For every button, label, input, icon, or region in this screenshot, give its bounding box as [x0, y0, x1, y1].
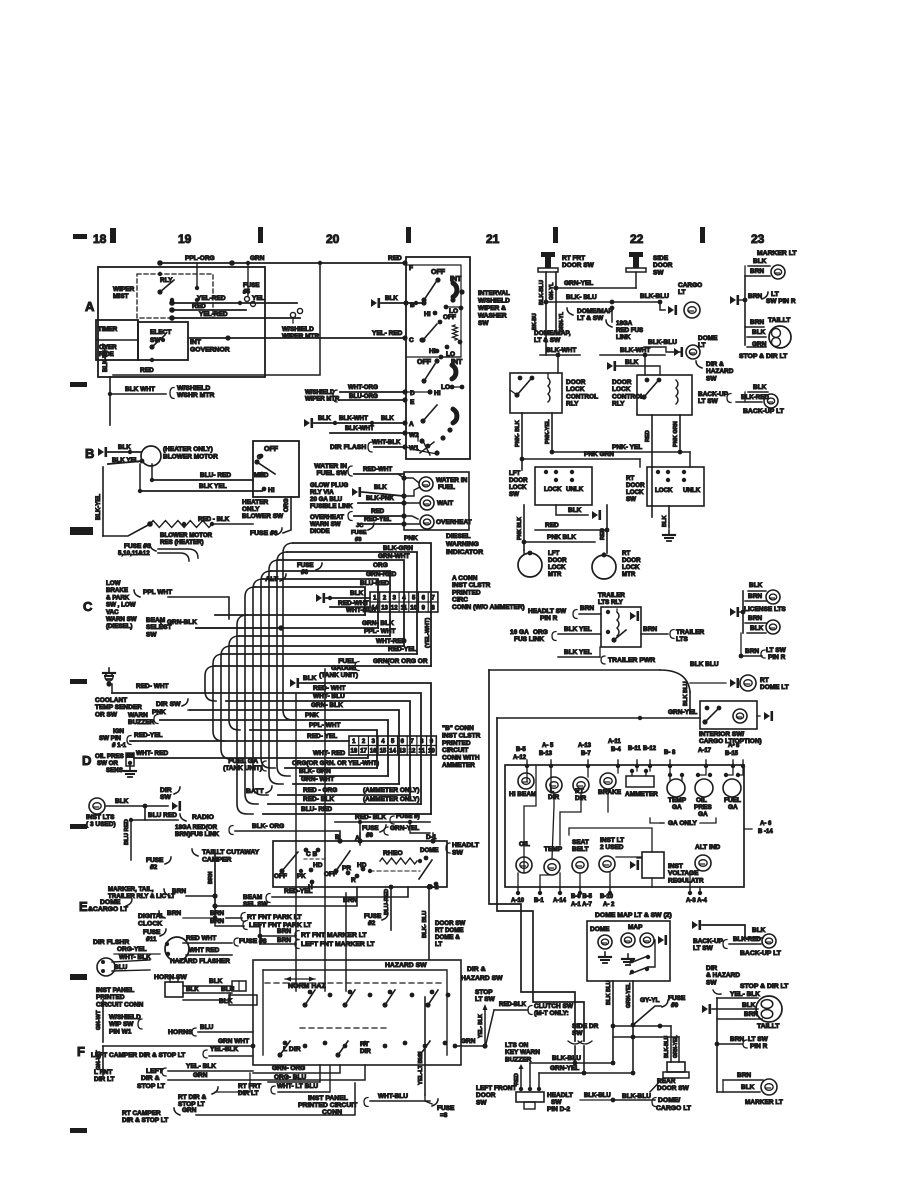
- svg-text:DOOR: DOOR: [626, 482, 645, 489]
- wiper sw W2 wire: [406, 433, 418, 441]
- wire BLK-BLU dome cargo: [580, 1093, 692, 1112]
- svg-text:LOCK: LOCK: [566, 386, 585, 393]
- svg-text:4: 4: [381, 739, 385, 745]
- svg-text:BLK: BLK: [752, 927, 766, 934]
- svg-text:ORG: ORG: [284, 498, 290, 512]
- svg-text:LT SW: LT SW: [766, 647, 787, 654]
- svg-text:MARKER LT: MARKER LT: [757, 250, 797, 257]
- svg-text:GRN-YEL: GRN-YEL: [564, 280, 593, 287]
- svg-text:CONTROL: CONTROL: [566, 393, 598, 400]
- ign sw pin: [99, 728, 163, 749]
- svg-text:RT DIR &: RT DIR &: [178, 1094, 206, 1101]
- headlamp sw rheostat: [368, 847, 439, 891]
- wshield wip sw pin: [109, 1014, 142, 1035]
- svg-text:18GA: 18GA: [616, 320, 633, 327]
- svg-text:FUEL: FUEL: [438, 484, 455, 491]
- svg-text:BLK-BLU: BLK-BLU: [584, 1093, 611, 1099]
- svg-text:WHT-BLU: WHT-BLU: [346, 607, 376, 614]
- vertical BLU RED inst: [124, 818, 145, 860]
- svg-text:GRN: GRN: [250, 255, 265, 262]
- hazard sw dashed mid: [300, 1027, 390, 1029]
- svg-text:& HAZARD: & HAZARD: [706, 972, 740, 979]
- wire BLU-RED through connector A: [255, 580, 390, 615]
- svg-text:ONLY: ONLY: [242, 506, 260, 513]
- dir sw hook: [156, 699, 190, 710]
- svg-text:LT: LT: [771, 291, 780, 298]
- svg-text:WHT-BLK: WHT-BLK: [372, 439, 401, 446]
- svg-text:DOOR: DOOR: [653, 262, 673, 269]
- svg-text:LT: LT: [435, 941, 442, 948]
- svg-text:GRN-YEL: GRN-YEL: [390, 825, 419, 832]
- svg-text:WSHR MTR: WSHR MTR: [177, 392, 214, 399]
- rt door lock mtr: [592, 550, 641, 579]
- blower motor (heater only): [141, 446, 218, 466]
- harness wire PPL-WHT bundle: [229, 636, 240, 730]
- headlamp switch box: [273, 841, 447, 887]
- int governor box: [98, 267, 265, 377]
- svg-text:WARN SW: WARN SW: [106, 616, 137, 623]
- svg-text:FUSE: FUSE: [364, 913, 382, 920]
- svg-text:INTERVAL: INTERVAL: [478, 290, 510, 297]
- svg-text:RED: RED: [645, 430, 651, 442]
- svg-text:BLK: BLK: [753, 384, 767, 391]
- svg-text:BRN: BRN: [580, 605, 594, 612]
- svg-text:C: C: [409, 337, 414, 344]
- svg-text:#2: #2: [150, 864, 158, 871]
- wire RED-WHT through connector B: [112, 685, 421, 804]
- svg-text:RED-YEL: RED-YEL: [134, 732, 163, 739]
- inst panel printed circuit conn label: [96, 987, 144, 1008]
- vertical BLK BLU headlamp: [422, 885, 431, 959]
- svg-text:DOME/: DOME/: [658, 1097, 680, 1104]
- svg-text:BLU- RED: BLU- RED: [200, 472, 231, 479]
- wire PPL-ORG / GRN to wiper switch pin F: [157, 255, 413, 272]
- svg-text:RT: RT: [626, 475, 634, 482]
- svg-text:WASHER: WASHER: [478, 313, 507, 320]
- svg-text:DIR &: DIR &: [706, 361, 724, 368]
- wire BLU-RED to heater sw: [150, 464, 253, 482]
- svg-text:FUSE: FUSE: [351, 530, 367, 536]
- svg-text:16 GA: 16 GA: [510, 629, 529, 636]
- svg-text:WHT-BLU: WHT-BLU: [378, 1093, 408, 1100]
- svg-text:HEADLT SW: HEADLT SW: [528, 608, 567, 615]
- verticals BLK-BLU GRN-YEL bottom: [606, 980, 633, 1071]
- label B conn inst clstr: [442, 725, 481, 769]
- dir sw lower: [160, 787, 180, 801]
- lft door lock mtr: [518, 550, 567, 578]
- svg-text:D: D: [82, 753, 91, 768]
- svg-text:SW: SW: [478, 320, 489, 327]
- backup lt sw right: [698, 384, 785, 415]
- row letter B: [85, 446, 94, 461]
- svg-text:15: 15: [380, 749, 387, 755]
- side dr sw label: [568, 1023, 599, 1044]
- horn fuse blocks: [229, 981, 257, 1005]
- wire WHT-BLU through connector B: [226, 693, 410, 795]
- wiper sw section 1 OFF/INT: [421, 269, 464, 303]
- svg-text:#11: #11: [146, 936, 157, 943]
- svg-text:BUZZER: BUZZER: [128, 719, 155, 726]
- svg-text:RED- WHT: RED- WHT: [136, 683, 169, 690]
- svg-text:SW: SW: [653, 269, 664, 276]
- svg-text:3: 3: [393, 596, 397, 602]
- svg-text:RED-BLK: RED-BLK: [499, 1002, 527, 1008]
- label RT DIR: [360, 1041, 371, 1055]
- svg-text:E: E: [410, 399, 415, 406]
- inst voltage regulator: [630, 852, 704, 884]
- svg-text:BRAKE: BRAKE: [598, 789, 622, 796]
- svg-text:DOME/MAP: DOME/MAP: [577, 308, 613, 315]
- wire BLK-GRN through connector A: [287, 545, 417, 654]
- svg-text:RT: RT: [622, 550, 630, 557]
- connector A grid: [370, 592, 438, 612]
- wire grn-yel staircase to side door: [497, 718, 584, 1041]
- back-up lt sw bottom: [692, 920, 782, 957]
- wire GRN-BLK row C: [196, 620, 394, 631]
- left dir stop lt: [137, 1063, 365, 1090]
- svg-text:7: 7: [431, 596, 435, 602]
- svg-text:RED-YEL: RED-YEL: [284, 888, 313, 895]
- wire BLK YEL trailer pwr: [558, 647, 655, 664]
- svg-text:FUSE #S: FUSE #S: [124, 543, 152, 550]
- svg-text:LOCK: LOCK: [544, 486, 562, 493]
- wire RED-WHT into connector A: [330, 600, 370, 607]
- vertical YEL-LT BLU: [418, 997, 425, 1095]
- svg-text:BRN: BRN: [748, 593, 762, 600]
- door sw rt dome labels right edge: [435, 920, 465, 948]
- svg-text:A CONN: A CONN: [452, 575, 478, 582]
- vertical GN-WT upper: [96, 1000, 103, 1042]
- wire GRN(OR ORG OR) row C: [215, 618, 431, 666]
- svg-text:OFF: OFF: [417, 359, 432, 366]
- svg-text:HI: HI: [434, 390, 441, 397]
- svg-text:DIR &: DIR &: [467, 966, 486, 973]
- svg-text:PRINTED: PRINTED: [96, 994, 125, 1001]
- svg-text:SW PIN: SW PIN: [99, 735, 122, 742]
- brn rt fnt marker: [258, 926, 368, 944]
- svg-text:INST CLSTR: INST CLSTR: [452, 582, 491, 589]
- wire rt dome lt / dome & cargo staircase: [489, 670, 575, 1041]
- svg-text:GA ONLY: GA ONLY: [668, 820, 697, 827]
- svg-text:RLY: RLY: [612, 401, 625, 408]
- fuse #2 right: [364, 913, 388, 927]
- long vertical harness x325: [324, 669, 326, 991]
- svg-text:1: 1: [352, 739, 356, 745]
- column number 22: [630, 232, 644, 246]
- svg-text:BRN: BRN: [750, 319, 764, 326]
- svg-text:LINK: LINK: [616, 334, 631, 341]
- svg-text:A-14: A-14: [553, 898, 567, 904]
- rotated BLK-BLU GN-YL labels: [532, 272, 565, 355]
- svg-text:LT & SW: LT & SW: [534, 337, 561, 344]
- svg-text:GRN-YEL: GRN-YEL: [673, 1036, 679, 1059]
- svg-text:BLOWER MOTOR: BLOWER MOTOR: [160, 532, 213, 539]
- svg-text:BLK: BLK: [318, 415, 331, 422]
- svg-text:BEAM: BEAM: [146, 617, 165, 624]
- svg-text:BRN: BRN: [748, 615, 762, 622]
- svg-text:WHT-ORG: WHT-ORG: [348, 384, 378, 391]
- vertical BLK-YEL heater: [96, 467, 103, 536]
- svg-text:GLOW PLUG: GLOW PLUG: [310, 482, 348, 489]
- svg-text:DOME: DOME: [420, 847, 439, 854]
- svg-text:#2: #2: [368, 920, 376, 927]
- svg-text:2: 2: [383, 596, 387, 602]
- svg-text:BLK-PNK: BLK-PNK: [366, 495, 394, 502]
- svg-text:WHT-RED: WHT-RED: [376, 638, 407, 645]
- lamp water in fuel: [404, 477, 468, 491]
- dir hazard sw left label: [461, 966, 503, 982]
- wire BLK-BLU buzzer: [530, 1055, 615, 1088]
- svg-text:B-15: B-15: [725, 751, 739, 757]
- svg-text:DIR & STOP LT: DIR & STOP LT: [122, 1117, 168, 1124]
- svg-text:PIN D-2: PIN D-2: [547, 1106, 571, 1113]
- svg-text:BACK-UP LT: BACK-UP LT: [740, 950, 782, 957]
- wire PPL-WHT through connector B: [250, 722, 377, 768]
- svg-text:OFF: OFF: [274, 873, 287, 880]
- svg-text:BK-BU: BK-BU: [532, 313, 538, 330]
- svg-text:BRN: BRN: [208, 871, 214, 884]
- label headlt sw: [446, 842, 480, 857]
- svg-text:GRN- ORG: GRN- ORG: [272, 1065, 305, 1072]
- svg-text:DOME: DOME: [698, 335, 718, 342]
- svg-text:SW OR: SW OR: [97, 760, 118, 767]
- svg-text:GRN- WHT: GRN- WHT: [301, 776, 334, 783]
- svg-text:PIN R: PIN R: [768, 654, 786, 661]
- svg-text:WHT RED: WHT RED: [189, 947, 220, 954]
- svg-text:HI: HI: [268, 487, 275, 494]
- wire GRN-BLK beam select: [160, 619, 284, 631]
- stop dir lt bottom: [740, 983, 789, 990]
- svg-text:11: 11: [419, 749, 426, 755]
- svg-text:B: B: [85, 446, 94, 461]
- svg-text:TEMP: TEMP: [544, 846, 563, 853]
- svg-text:CONTROL: CONTROL: [612, 393, 644, 400]
- svg-text:FUSE: FUSE: [362, 825, 379, 832]
- svg-text:DOOR: DOOR: [548, 557, 567, 564]
- svg-text:BLK: BLK: [749, 582, 763, 589]
- svg-text:PNK BLK: PNK BLK: [547, 534, 576, 541]
- svg-text:FUSIBLE LINK: FUSIBLE LINK: [310, 503, 353, 510]
- svg-text:BLU RED: BLU RED: [124, 819, 130, 845]
- wiper washer switch box: [406, 257, 470, 459]
- svg-text:INT: INT: [450, 276, 462, 283]
- wire BLK BLU dome curve: [489, 661, 719, 712]
- svg-text:DOME &: DOME &: [435, 934, 460, 941]
- svg-text:WHT- BLK: WHT- BLK: [119, 954, 151, 961]
- svg-text:BLK: BLK: [662, 516, 668, 528]
- svg-text:DIR LT: DIR LT: [94, 1076, 114, 1083]
- cargo lt: [640, 282, 702, 318]
- svg-text:PPL-ORG: PPL-ORG: [185, 255, 215, 262]
- label fuse #S: [118, 543, 152, 557]
- svg-text:GRN- BLK: GRN- BLK: [362, 620, 394, 627]
- cluster lamp oil: [516, 841, 532, 873]
- wire WHT-BLU row C: [215, 607, 376, 615]
- svg-text:BLK: BLK: [742, 1002, 756, 1009]
- door lock control rly left: [510, 373, 598, 413]
- svg-text:PNK: PNK: [305, 712, 319, 719]
- svg-text:LTS: LTS: [676, 636, 688, 643]
- column tick 19/20: [258, 227, 263, 243]
- svg-text:(YEL-WHT): (YEL-WHT): [425, 618, 431, 648]
- horns label: [168, 1024, 253, 1036]
- fuse feed curves to harness bundle: [150, 544, 198, 561]
- svg-text:( 3 USED): ( 3 USED): [86, 821, 116, 828]
- instrument cluster box: [505, 765, 744, 887]
- svg-text:RT FNT PARK LT: RT FNT PARK LT: [247, 914, 302, 921]
- svg-text:LT SW: LT SW: [698, 398, 719, 405]
- svg-text:SEL SW: SEL SW: [243, 901, 269, 908]
- svg-text:BLK: BLK: [209, 978, 223, 985]
- svg-text:6: 6: [401, 739, 405, 745]
- svg-text:BRN: BRN: [167, 910, 181, 917]
- svg-text:INST PANEL: INST PANEL: [308, 1095, 348, 1102]
- column number 19: [178, 232, 192, 246]
- label L DIR: [283, 1046, 301, 1053]
- svg-text:A- 5: A- 5: [542, 743, 554, 749]
- svg-text:AMMETER: AMMETER: [625, 791, 658, 798]
- interior sw cargo lt box: [640, 701, 773, 745]
- headlt sw node letters: [335, 833, 437, 844]
- svg-text:# 1-1: # 1-1: [112, 742, 127, 749]
- svg-text:GRN-YL: GRN-YL: [559, 311, 565, 332]
- svg-text:1: 1: [373, 596, 377, 602]
- svg-text:DOME MAP LT & SW (2): DOME MAP LT & SW (2): [595, 912, 672, 919]
- svg-text:SW: SW: [160, 794, 172, 801]
- svg-text:BLK BLU: BLK BLU: [690, 661, 719, 668]
- svg-text:BLK: BLK: [385, 295, 398, 302]
- svg-text:PNK: PNK: [152, 709, 166, 716]
- cluster fuel ga: [723, 773, 741, 811]
- svg-text:BLK YEL: BLK YEL: [112, 457, 139, 464]
- svg-text:C B: C B: [306, 851, 318, 858]
- svg-text:A-11: A-11: [608, 739, 621, 745]
- wire BLK-BLU door: [544, 294, 663, 304]
- svg-text:FUSE: FUSE: [668, 995, 686, 1002]
- svg-text:TRAILER: TRAILER: [676, 629, 704, 636]
- svg-text:CLOCK: CLOCK: [138, 921, 162, 928]
- svg-text:A- 8: A- 8: [728, 743, 740, 749]
- label low brake park warn sw: [106, 580, 137, 630]
- svg-text:RES (HEATER): RES (HEATER): [160, 539, 204, 546]
- svg-text:SW , LOW: SW , LOW: [106, 602, 136, 609]
- svg-text:WAIT: WAIT: [437, 500, 453, 507]
- svg-text:LEFT FNT MARKER LT: LEFT FNT MARKER LT: [301, 941, 375, 948]
- svg-text:RED- WHT: RED- WHT: [313, 685, 346, 692]
- svg-text:22: 22: [630, 232, 644, 246]
- svg-text:LOCK: LOCK: [655, 487, 673, 494]
- svg-text:BLK: BLK: [186, 986, 199, 993]
- lt sw pin r bracket: [730, 276, 796, 345]
- svg-text:BLOWER SW: BLOWER SW: [242, 513, 284, 520]
- wiper sw HI contact: [406, 389, 441, 397]
- svg-text:ELECT: ELECT: [150, 329, 171, 336]
- svg-text:B-12: B-12: [643, 746, 657, 752]
- wiper sw section 1 LO contacts: [444, 305, 464, 315]
- svg-text:B-1: B-1: [534, 898, 544, 904]
- wire PNK-BLK lock: [522, 534, 595, 544]
- svg-text:DOME: DOME: [100, 899, 121, 906]
- rt camper dir stop: [122, 1083, 355, 1124]
- wire BLU-ORG to pin E: [305, 390, 415, 406]
- svg-text:DOOR: DOOR: [476, 1092, 496, 1099]
- svg-text:ORG- BLU: ORG- BLU: [274, 1074, 306, 1081]
- svg-text:REGULATR: REGULATR: [668, 877, 704, 884]
- svg-text:BLK-BLU: BLK-BLU: [552, 1055, 581, 1062]
- verticals PNK-BLK PNK-YEL: [515, 413, 552, 470]
- brn left fnt park: [210, 918, 312, 930]
- ga only bracket: [650, 818, 716, 827]
- svg-text:GN-YL: GN-YL: [549, 282, 555, 300]
- wiper sw section 2 HI LO: [429, 348, 460, 359]
- timer box: [96, 320, 138, 360]
- wiper mist relay RLY dashed box: [137, 274, 213, 318]
- svg-text:GAUGE: GAUGE: [331, 665, 356, 672]
- svg-text:OVERHEAT: OVERHEAT: [310, 514, 344, 521]
- row letter D: [82, 753, 91, 768]
- svg-text:BLK- GRN: BLK- GRN: [299, 768, 331, 775]
- svg-text:BLK WHT: BLK WHT: [125, 386, 155, 393]
- svg-text:BRN: BRN: [277, 928, 291, 935]
- svg-text:CARGO LT: CARGO LT: [656, 1105, 692, 1112]
- svg-text:RT: RT: [360, 1041, 370, 1048]
- diesel warning indicator box: [404, 472, 469, 530]
- svg-text:LT SW: LT SW: [693, 945, 714, 952]
- svg-text:GRN-YEL: GRN-YEL: [668, 709, 697, 716]
- svg-text:SEAT: SEAT: [572, 839, 589, 846]
- svg-text:VOLTAGE: VOLTAGE: [668, 870, 699, 877]
- lamp overheat: [404, 515, 472, 529]
- verticals below lock sw: [517, 505, 607, 553]
- gy-yl fuse 9: [631, 995, 686, 1027]
- harness wire GRN-RED bundle: [253, 579, 268, 795]
- svg-text:GOVERNOR: GOVERNOR: [190, 347, 230, 354]
- dome map box: [587, 921, 670, 981]
- svg-text:OIL PRES: OIL PRES: [95, 753, 124, 760]
- svg-text:PRINTED: PRINTED: [442, 740, 471, 747]
- svg-text:BLOWER MOTOR: BLOWER MOTOR: [163, 454, 218, 461]
- svg-text:YEL-RED: YEL-RED: [197, 295, 226, 302]
- svg-text:RED FUS: RED FUS: [616, 327, 643, 334]
- svg-text:BRN: BRN: [172, 888, 186, 895]
- lamp wait: [404, 487, 453, 510]
- column number 18 with margin tick: [73, 228, 116, 246]
- wiper sw section 3 OFF INT: [417, 358, 463, 383]
- headlamp sw contacts PR HD: [324, 851, 367, 884]
- harness wire GRN-WHT bundle: [269, 560, 283, 784]
- svg-text:LT SW: LT SW: [748, 1036, 769, 1043]
- svg-text:SW: SW: [146, 631, 157, 638]
- cluster bottom pins: [511, 887, 707, 908]
- svg-text:RED: RED: [388, 255, 402, 262]
- svg-text:DIESEL: DIESEL: [446, 533, 471, 540]
- svg-text:BACK-UP LT: BACK-UP LT: [743, 408, 785, 415]
- connector B grid: [349, 736, 436, 755]
- label A conn inst clstr: [452, 575, 525, 611]
- svg-text:(DIESEL): (DIESEL): [106, 623, 132, 630]
- wiper sw pin C contacts: [419, 337, 462, 349]
- svg-text:B-4: B-4: [611, 747, 621, 753]
- svg-text:RED- BLK: RED- BLK: [303, 796, 334, 803]
- wire RED lock: [535, 522, 609, 532]
- wire RED-BLK fuse: [335, 813, 430, 845]
- svg-text:C: C: [83, 599, 93, 614]
- rt dir stop lt: [178, 1073, 250, 1108]
- svg-text:A-13: A-13: [578, 743, 592, 749]
- svg-text:ORG: ORG: [533, 629, 548, 636]
- svg-text:MTR: MTR: [548, 571, 562, 578]
- rt door lock sw box: [626, 467, 704, 506]
